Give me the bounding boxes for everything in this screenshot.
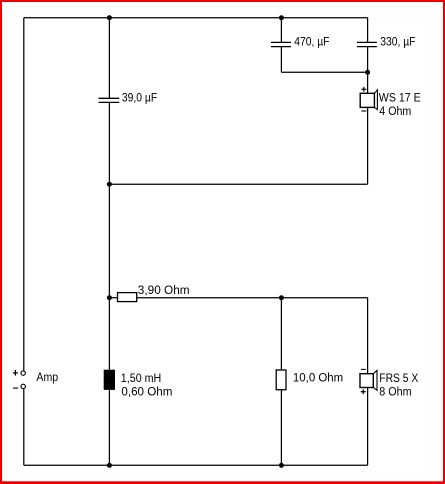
- svg-text:10,0 Ohm: 10,0 Ohm: [293, 373, 343, 385]
- wire C2 branch upper: [280, 18, 282, 43]
- svg-text:8 Ohm: 8 Ohm: [379, 386, 411, 398]
- svg-text:4 Ohm: 4 Ohm: [379, 106, 411, 118]
- red frame bottom: [0, 481, 445, 484]
- junction node lower-mid R2: [279, 295, 284, 300]
- capacitor C2 470 uF plates: [271, 42, 291, 46]
- amp terminal circle minus: [21, 384, 25, 388]
- resistor R1 3,90 Ohm body: [118, 293, 137, 302]
- capacitor C3 330 uF plates: [357, 42, 377, 46]
- svg-text:330, µF: 330, µF: [380, 36, 415, 48]
- amp terminal circle plus: [21, 371, 25, 375]
- red frame top: [0, 0, 445, 2]
- speaker LS1 minus sign: [361, 110, 366, 112]
- red frame right: [443, 0, 445, 484]
- svg-text:0,60 Ohm: 0,60 Ohm: [121, 386, 172, 398]
- wire C3 branch lower: [367, 47, 369, 73]
- speaker LS1 WS 17 E box: [360, 93, 374, 107]
- wire R2 branch vertical: [280, 298, 282, 466]
- svg-text:39,0 µF: 39,0 µF: [122, 93, 157, 105]
- junction node bottom center: [107, 463, 112, 468]
- wire from LS2 to bottom wire: [367, 388, 369, 466]
- wire left vertical lower: [23, 389, 25, 465]
- wire C2 branch lower: [280, 47, 282, 73]
- wire C3 branch upper: [367, 18, 369, 43]
- resistor R2 10,0 Ohm body: [276, 370, 286, 390]
- inductor L1 1,50 mH body: [104, 370, 115, 390]
- svg-text:WS 17 E: WS 17 E: [379, 93, 421, 105]
- junction node cap bottom: [365, 70, 370, 75]
- junction node top-center: [107, 15, 112, 20]
- wire left vertical upper: [23, 18, 25, 371]
- red frame left: [0, 0, 2, 484]
- wire into speaker LS2: [367, 298, 369, 374]
- svg-text:1,50 mH: 1,50 mH: [121, 373, 162, 385]
- wire lower-mid horizontal through R1: [109, 297, 367, 299]
- junction node top C2: [279, 15, 284, 20]
- capacitor C1 39,0 uF plates: [99, 98, 120, 102]
- junction node lower-mid left: [107, 295, 112, 300]
- wire from LS1 to mid wire: [367, 107, 369, 184]
- amp plus sign: [13, 370, 18, 376]
- svg-text:FRS 5 X: FRS 5 X: [379, 373, 418, 385]
- speaker LS2 FRS 5 X box: [360, 374, 373, 388]
- wire capacitor bottom horizontal: [281, 71, 367, 73]
- wire mid horizontal: [109, 183, 367, 185]
- speaker LS2 minus sign: [361, 368, 366, 370]
- wire into speaker LS1: [367, 72, 369, 93]
- wire center vertical below C1: [108, 102, 110, 465]
- wire top horizontal: [24, 17, 368, 19]
- speaker LS1 WS 17 E horn: [374, 90, 377, 110]
- amp minus sign: [13, 387, 18, 389]
- svg-text:Amp: Amp: [36, 372, 58, 384]
- svg-text:470, µF: 470, µF: [294, 36, 329, 48]
- junction node mid wire: [107, 182, 112, 187]
- junction node bottom R2: [279, 463, 284, 468]
- wire bottom horizontal: [24, 464, 368, 466]
- speaker LS2 plus sign: [361, 389, 366, 394]
- wire center vertical above C1: [108, 18, 110, 99]
- svg-text:3,90 Ohm: 3,90 Ohm: [138, 285, 190, 297]
- speaker LS1 plus sign: [361, 87, 366, 92]
- speaker LS2 FRS 5 X horn: [373, 370, 377, 390]
